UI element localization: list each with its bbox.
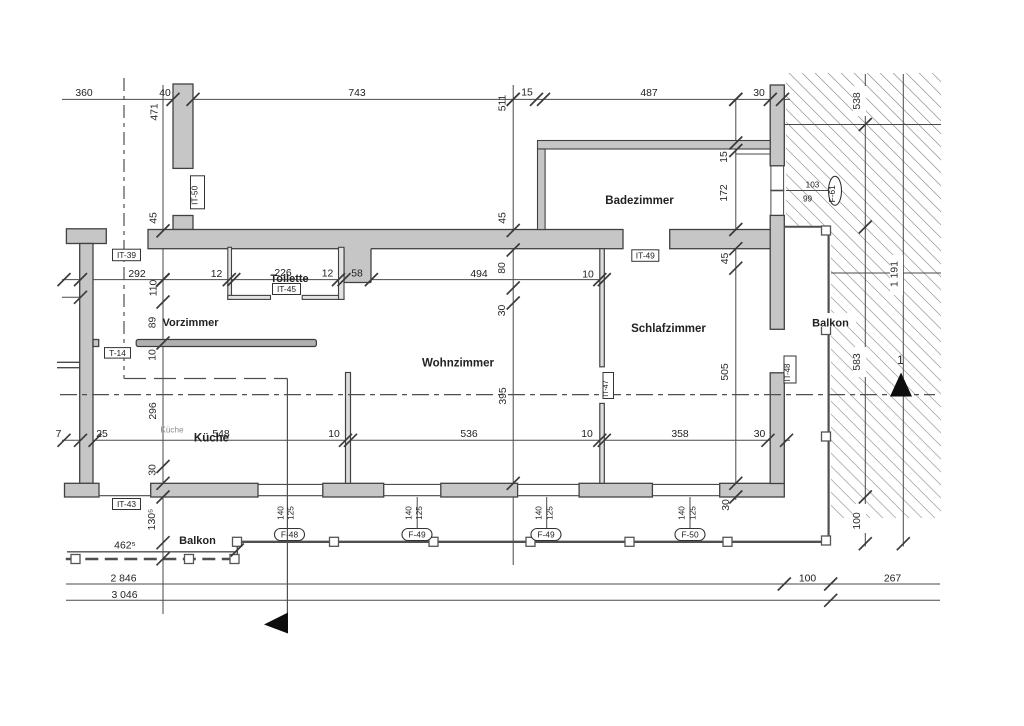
wall: left exterior wall leg — [80, 244, 93, 484]
svg-text:80: 80 — [497, 262, 508, 274]
interior dimension line (292/12/226/12/58/494/10) — [62, 279, 601, 281]
svg-text:395: 395 — [498, 387, 509, 405]
ticks overall dim lines — [778, 578, 791, 591]
svg-text:15: 15 — [719, 151, 730, 163]
top dimension line — [62, 98, 790, 100]
svg-text:505: 505 — [720, 363, 731, 381]
wall: main interior band, left of door IT-49 — [148, 230, 623, 249]
ticks site lines — [859, 118, 872, 131]
window label F-49b — [531, 529, 561, 541]
window label F-49a — [402, 529, 432, 541]
ticks vertical chain x=735.8 — [729, 93, 742, 106]
svg-text:10: 10 — [328, 429, 340, 440]
overall dimension line 3046 — [66, 599, 940, 601]
wall: main interior band, right of door IT-49 — [670, 230, 771, 249]
vertical dimension chain x=735.8 — [735, 99, 737, 500]
site dimension vertical line x=865 — [864, 74, 866, 547]
svg-text:F-50: F-50 — [681, 530, 699, 540]
ticks interior dim line y=279.6 — [58, 273, 71, 286]
svg-text:100: 100 — [852, 512, 863, 530]
svg-text:110: 110 — [149, 280, 160, 297]
svg-text:7: 7 — [56, 429, 62, 440]
svg-text:Badezimmer: Badezimmer — [605, 195, 674, 207]
svg-text:130⁵: 130⁵ — [147, 509, 158, 531]
svg-text:Vorzimmer: Vorzimmer — [162, 317, 219, 329]
left edge mark y=297 — [62, 296, 80, 298]
window F-49a (south) — [384, 483, 441, 485]
svg-text:Balkon: Balkon — [179, 535, 216, 547]
svg-text:12: 12 — [322, 269, 334, 280]
svg-text:10: 10 — [148, 349, 159, 361]
svg-text:30: 30 — [497, 305, 508, 317]
section line passing through F-48 capsule — [286, 529, 288, 542]
wall: Badezimmer west (thin) — [538, 149, 546, 230]
window F-50 (south) — [652, 483, 719, 485]
svg-text:IT-50: IT-50 — [190, 185, 200, 204]
svg-text:3 046: 3 046 — [111, 590, 137, 601]
wall: Toilette south left of door IT-45 — [228, 295, 271, 299]
south-west balcony outer edge — [67, 551, 235, 553]
south-west balcony corner drop — [236, 542, 238, 559]
svg-text:125: 125 — [287, 506, 296, 520]
door label T-14 — [105, 348, 131, 359]
svg-text:360: 360 — [75, 88, 93, 99]
svg-text:IT-49: IT-49 — [636, 251, 655, 261]
tick balcony corner — [231, 544, 244, 557]
svg-text:125: 125 — [415, 506, 424, 520]
svg-text:103: 103 — [806, 181, 820, 190]
svg-text:F-48: F-48 — [281, 530, 299, 540]
wall: north pier stub below door IT-50 — [173, 216, 193, 230]
svg-text:IT-45: IT-45 — [277, 284, 296, 294]
svg-text:IT-39: IT-39 — [117, 250, 136, 260]
svg-text:F-49: F-49 — [408, 530, 426, 540]
wall: Toilette west (thin) — [228, 247, 232, 299]
door IT-43 threshold — [99, 495, 151, 497]
site horizontal line y=273 — [831, 272, 941, 274]
wall: Toilette south right of door IT-45 — [302, 295, 344, 299]
lower interior dimension line (25/548/10/536/10/358/30) — [62, 439, 790, 441]
wall: Kueche partition — [346, 373, 351, 484]
hatched terrain lower block — [831, 227, 941, 518]
svg-text:125: 125 — [689, 506, 698, 520]
wall: north pier (top, with door IT-50 gap) — [173, 84, 193, 168]
svg-text:T-14: T-14 — [109, 348, 126, 358]
door label IT-45 — [273, 284, 301, 295]
wall: pier right of Toilette — [344, 241, 371, 283]
svg-text:45: 45 — [498, 212, 509, 224]
left sill double line — [57, 361, 81, 363]
door label IT-39 — [113, 249, 141, 261]
section arrow (bottom, pointing left) — [264, 613, 288, 634]
svg-text:1 191: 1 191 — [890, 261, 901, 287]
svg-text:172: 172 — [719, 184, 730, 202]
door label IT-47 — [601, 373, 613, 399]
window F-49b (south) — [518, 483, 580, 485]
door label IT-50 — [190, 176, 205, 209]
wall: left T-head — [66, 229, 106, 244]
wall: door T-14 jamb stub — [93, 340, 99, 347]
centre axis dashed line (horizontal) — [60, 394, 935, 396]
svg-text:583: 583 — [852, 353, 863, 371]
wall: east exterior, between window F-61 and door IT-48 — [770, 215, 784, 329]
wall: bottom-left footing — [65, 483, 100, 497]
svg-text:1: 1 — [897, 355, 903, 367]
leader to F-49b — [546, 497, 548, 529]
svg-text:Schlafzimmer: Schlafzimmer — [631, 323, 706, 335]
svg-text:IT-43: IT-43 — [117, 499, 136, 509]
svg-text:536: 536 — [460, 429, 478, 440]
vertical dimension chain x=513 — [512, 85, 514, 565]
svg-text:10: 10 — [581, 429, 593, 440]
svg-text:358: 358 — [671, 429, 689, 440]
wall: south band segment 3 — [441, 483, 518, 497]
window F-61 leader line — [786, 190, 828, 192]
east balcony top edge — [784, 226, 828, 228]
svg-text:125: 125 — [546, 506, 555, 520]
leader to F-50 — [689, 497, 691, 529]
svg-text:99: 99 — [803, 195, 813, 204]
wall: south band segment 5 (to SE corner) — [720, 483, 785, 497]
room label Balkon (east, with halo) — [806, 313, 856, 327]
leader to F-49a — [416, 497, 418, 529]
door label IT-49 — [632, 250, 659, 261]
svg-text:30: 30 — [754, 429, 766, 440]
section marker vertical line — [286, 379, 288, 614]
svg-text:IT-47: IT-47 — [601, 380, 610, 396]
wall: Schlafzimmer partition below door IT-47 — [600, 403, 605, 483]
svg-text:Wohnzimmer: Wohnzimmer — [422, 358, 495, 370]
south balcony railing — [237, 541, 828, 543]
window F-61 (east wall) glazing — [770, 190, 784, 192]
svg-text:471: 471 — [150, 103, 161, 121]
window label F-48 — [275, 529, 305, 541]
wall: south band segment 1 — [151, 483, 258, 497]
svg-text:292: 292 — [128, 269, 146, 280]
svg-text:Balkon: Balkon — [812, 318, 849, 330]
svg-text:743: 743 — [348, 88, 366, 99]
ticks lower dim line y=440.3 — [58, 434, 71, 447]
svg-text:538: 538 — [852, 92, 863, 110]
niche line below Badezimmer north wall — [736, 153, 770, 155]
svg-text:267: 267 — [884, 574, 902, 585]
centre axis dashed line (vertical, x=124) — [123, 78, 125, 379]
svg-text:Küche: Küche — [194, 433, 229, 445]
wardrobe/partition bar in Vorzimmer — [136, 340, 316, 347]
svg-text:F-49: F-49 — [537, 530, 555, 540]
svg-text:40: 40 — [159, 88, 171, 99]
door label IT-43 — [113, 499, 141, 510]
site dimension vertical line x=903 — [902, 74, 904, 547]
wall: Schlafzimmer partition above door IT-47 — [600, 249, 605, 367]
svg-text:140: 140 — [405, 506, 414, 520]
svg-text:10: 10 — [582, 270, 594, 281]
wall: south band segment 2 — [323, 483, 384, 497]
dashed jog line to section marker — [124, 378, 287, 380]
east balcony right edge — [827, 227, 829, 542]
wall: Toilette east (thin) — [339, 247, 345, 299]
svg-text:45: 45 — [149, 212, 160, 224]
wall: east exterior, above window F-61 — [770, 85, 784, 166]
ticks vertical chain x=513 — [507, 93, 520, 106]
window F-48 (south) — [258, 483, 323, 485]
svg-text:58: 58 — [351, 269, 363, 280]
site horizontal line y=124.5 — [784, 124, 941, 126]
ticks vertical chain x=163 — [157, 224, 170, 237]
svg-text:100: 100 — [799, 574, 817, 585]
svg-text:12: 12 — [211, 269, 223, 280]
railing posts — [71, 555, 80, 564]
rotated site dims (white halo) — [853, 86, 866, 116]
svg-text:487: 487 — [640, 88, 658, 99]
svg-text:30: 30 — [721, 499, 732, 511]
svg-text:511: 511 — [498, 95, 509, 112]
svg-text:F-61: F-61 — [827, 185, 837, 203]
wall: Badezimmer north (thin) — [538, 141, 771, 150]
svg-text:IT-48: IT-48 — [783, 364, 792, 382]
overall dimension line 2846/100/267 — [66, 583, 940, 585]
tick left wall mark — [74, 291, 87, 304]
svg-text:89: 89 — [148, 317, 159, 329]
window label F-50 — [675, 529, 705, 541]
svg-text:45: 45 — [720, 253, 731, 265]
ticks top dimension line — [167, 93, 180, 106]
svg-text:Küche: Küche — [160, 426, 184, 435]
window label F-61 — [827, 176, 842, 205]
wall: south band segment 4 — [579, 483, 652, 497]
svg-text:30: 30 — [148, 464, 159, 476]
svg-text:25: 25 — [96, 429, 108, 440]
svg-text:140: 140 — [277, 506, 286, 520]
hatched terrain upper block — [786, 73, 941, 227]
svg-text:30: 30 — [753, 88, 765, 99]
svg-text:462⁵: 462⁵ — [114, 541, 136, 552]
svg-text:15: 15 — [521, 88, 533, 99]
section arrow (top right, pointing up) — [890, 373, 912, 397]
svg-text:296: 296 — [148, 402, 159, 420]
vertical dimension chain x=163 — [162, 85, 164, 614]
south-west balcony dashed railing — [66, 558, 238, 560]
svg-text:140: 140 — [535, 506, 544, 520]
door label IT-48 — [783, 356, 796, 383]
svg-text:2 846: 2 846 — [110, 574, 136, 585]
wall: east exterior, below door IT-48 — [770, 373, 784, 484]
svg-text:494: 494 — [470, 269, 488, 280]
svg-text:140: 140 — [678, 506, 687, 520]
